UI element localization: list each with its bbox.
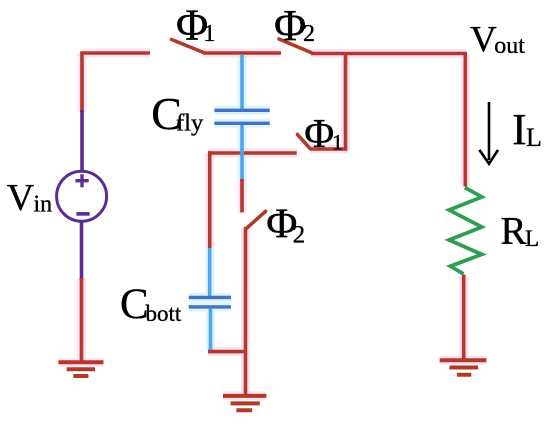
svg-text:fly: fly <box>176 110 204 137</box>
wire: blue lead from Cfly bottom plate down across node <box>240 125 244 181</box>
svg-text:2: 2 <box>293 221 306 248</box>
svg-text:1: 1 <box>203 20 215 47</box>
svg-text:I: I <box>512 105 527 154</box>
label Phi2 (top switch) <box>274 1 315 50</box>
label IL <box>512 105 542 154</box>
label RL <box>501 209 540 252</box>
label Vout <box>470 19 525 60</box>
svg-text:Φ: Φ <box>274 1 306 50</box>
wire: from resistor RL down to right ground <box>462 275 466 360</box>
svg-text:Φ: Φ <box>304 110 334 156</box>
svg-text:out: out <box>494 33 525 59</box>
label Cbott <box>120 281 182 328</box>
label Phi1 (middle switch) <box>304 110 343 156</box>
wire: top rail from switch S2 to Vout corner, down to load <box>311 54 467 187</box>
ground (left, below Vin) <box>58 362 103 376</box>
label Phi2 (middle switch) <box>266 200 305 248</box>
wire: red lead down to left ground <box>80 278 84 362</box>
svg-text:1: 1 <box>332 130 343 155</box>
node: junction of top rail with middle switch branch <box>310 54 347 151</box>
svg-text:V: V <box>470 19 497 60</box>
svg-text:bott: bott <box>146 301 182 326</box>
ground (middle) <box>223 396 266 410</box>
wire: purple lead from Vin source bottom <box>80 221 84 280</box>
label Phi1 (top-left switch) <box>176 1 216 50</box>
svg-text:2: 2 <box>303 21 315 47</box>
svg-text:R: R <box>501 209 527 252</box>
wire: blue lead from Cbott bottom plate down <box>209 309 213 352</box>
wire: left branch down from node toward Cbott (red part) <box>208 151 212 248</box>
current arrow IL <box>479 102 498 164</box>
wire: Vin top lead up to top-left corner and right to switch <box>80 53 150 112</box>
wire: from switch S4 down to ground <box>244 227 248 395</box>
switch S3 (phase 1, middle) <box>297 134 309 148</box>
switch S1 (phase 1, top-left) <box>172 40 204 53</box>
capacitor Cfly <box>214 110 269 123</box>
wire: blue lead from top rail into Cfly top plate <box>240 55 244 109</box>
label Vin <box>7 177 52 219</box>
voltage source Vin <box>57 171 107 221</box>
capacitor Cbott <box>189 297 231 307</box>
wire: node below Cfly (horizontal) <box>208 151 297 155</box>
svg-text:L: L <box>525 226 539 251</box>
switch S4 (phase 2, middle) <box>246 211 265 228</box>
ground (right, below RL) <box>440 360 487 374</box>
halo glow around wires <box>58 53 486 396</box>
svg-text:in: in <box>34 191 53 217</box>
wire: bottom horizontal joining Cbott to ground branch <box>208 350 245 354</box>
resistor RL <box>449 188 482 275</box>
label Cfly <box>151 88 204 139</box>
wire: blue lead into Cbott top plate <box>208 248 212 296</box>
svg-text:V: V <box>7 177 35 219</box>
svg-text:L: L <box>526 123 542 152</box>
wire: red stub from node down to middle switch S4 <box>240 179 244 212</box>
svg-text:C: C <box>120 281 149 328</box>
switch S2 (phase 2, top) <box>279 39 311 53</box>
wire: purple lead from red wire down to Vin source top <box>80 110 84 172</box>
wire: top rail between switch S1 and switch S2 <box>203 51 281 55</box>
